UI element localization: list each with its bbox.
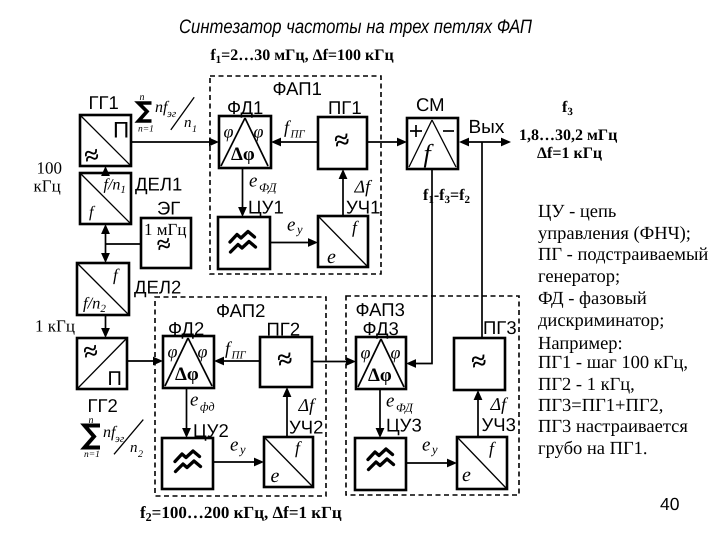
wire UC2 to PG2 xyxy=(283,387,292,437)
svg-text:ПГ3 настраивается: ПГ3 настраивается xyxy=(538,417,688,437)
block FD3 phase detector xyxy=(356,337,406,389)
label 1 kHz xyxy=(35,317,75,336)
svg-text:n: n xyxy=(89,415,94,426)
svg-text:φ: φ xyxy=(168,342,178,362)
formula sum n f_eg / n2 xyxy=(84,415,143,460)
svg-text:ФАП3: ФАП3 xyxy=(356,299,405,320)
block SM mixer xyxy=(407,118,458,169)
wire UC1 to PG1 xyxy=(339,169,348,216)
block FD2 phase detector xyxy=(163,336,214,388)
svg-text:ЦУ3: ЦУ3 xyxy=(386,415,422,436)
svg-text:e: e xyxy=(190,390,198,411)
svg-text:f2=100…200 кГц, Δf=1 кГц: f2=100…200 кГц, Δf=1 кГц xyxy=(140,503,342,524)
label e_y loop3 xyxy=(422,435,438,457)
svg-text:ЦУ - цепь: ЦУ - цепь xyxy=(538,202,616,222)
label FAP3 xyxy=(356,299,405,320)
label f3 output xyxy=(562,99,573,118)
svg-text:ФД1: ФД1 xyxy=(227,97,263,118)
block UC3 xyxy=(457,437,507,489)
svg-text:ПГ2: ПГ2 xyxy=(267,319,301,340)
dashed loop box FAP1 xyxy=(210,76,381,274)
label CU3 xyxy=(386,415,422,436)
label PG2 xyxy=(267,319,301,340)
svg-text:дискриминатор;: дискриминатор; xyxy=(538,311,664,331)
svg-text:П: П xyxy=(108,368,122,390)
label DEL2 xyxy=(134,277,181,298)
svg-text:e: e xyxy=(271,465,280,487)
wire FD2 to CU2 xyxy=(182,388,191,438)
label DEL1 xyxy=(135,174,182,195)
svg-text:ДЕЛ1: ДЕЛ1 xyxy=(135,174,182,195)
dashed loop box FAP2 xyxy=(155,297,326,496)
label output range xyxy=(519,127,617,144)
label EG xyxy=(157,198,180,219)
formula sum n f_eg / n1 xyxy=(138,92,197,135)
svg-text:φ: φ xyxy=(254,122,264,142)
svg-text:e: e xyxy=(327,246,336,268)
block GG1 xyxy=(80,115,131,171)
wire DEL1-DEL2 double arrow xyxy=(101,224,110,263)
svg-text:φ: φ xyxy=(391,343,401,363)
block CU3 xyxy=(355,438,406,490)
label e_fd loop1 xyxy=(249,171,277,195)
block CU1 control circuit (LPF) xyxy=(218,217,270,269)
block CU2 xyxy=(162,438,213,489)
label e_fd loop2 xyxy=(190,390,215,414)
svg-text:n=1: n=1 xyxy=(84,450,100,460)
subtitle f1=2...30 mHz xyxy=(210,47,393,66)
svg-text:Δφ: Δφ xyxy=(231,144,255,165)
label Vyh xyxy=(469,117,505,138)
label f_PG loop1 xyxy=(284,117,305,141)
svg-text:УЧ3: УЧ3 xyxy=(482,414,516,435)
label CU2 xyxy=(193,420,229,441)
wire CU3 to UC3 xyxy=(406,459,457,468)
svg-text:ПГ3=ПГ1+ПГ2,: ПГ3=ПГ1+ПГ2, xyxy=(538,396,663,416)
svg-text:ФД2: ФД2 xyxy=(168,318,204,339)
label output step xyxy=(537,145,602,162)
label e_fd loop3 xyxy=(386,391,414,415)
svg-text:φ: φ xyxy=(224,122,234,142)
label GG1 xyxy=(89,92,119,113)
svg-text:ФД3: ФД3 xyxy=(363,318,399,339)
wire DEL1 to GG1 xyxy=(101,166,110,176)
svg-text:Вых: Вых xyxy=(469,117,505,138)
wire SM to output with f3 feedback junction xyxy=(459,138,511,147)
svg-text:ПГ2 - 1 кГц,: ПГ2 - 1 кГц, xyxy=(538,375,635,395)
svg-text:генератор;: генератор; xyxy=(538,267,620,287)
wire EG to divider junction xyxy=(106,243,142,245)
svg-text:φ: φ xyxy=(361,343,371,363)
svg-text:Δf=1 кГц: Δf=1 кГц xyxy=(537,145,602,162)
label UC3 xyxy=(482,414,516,435)
block UC2 xyxy=(264,437,313,487)
svg-text:e: e xyxy=(422,435,430,456)
svg-text:1,8…30,2 мГц: 1,8…30,2 мГц xyxy=(519,127,617,144)
wire DEL2 to GG2 xyxy=(101,315,110,338)
label f_PG loop2 xyxy=(225,338,246,362)
svg-text:100: 100 xyxy=(37,159,63,178)
label e_y loop1 xyxy=(287,215,303,237)
svg-text:n: n xyxy=(184,115,192,131)
svg-text:ФД: ФД xyxy=(396,401,414,415)
svg-text:ПГ3: ПГ3 xyxy=(483,317,517,338)
svg-text:ФАП1: ФАП1 xyxy=(273,78,322,99)
label PG3 xyxy=(483,317,517,338)
svg-text:грубо на ПГ1.: грубо на ПГ1. xyxy=(538,439,648,459)
svg-text:e: e xyxy=(287,215,295,236)
svg-text:2: 2 xyxy=(138,449,143,460)
svg-text:ДЕЛ2: ДЕЛ2 xyxy=(134,277,181,298)
svg-text:эг: эг xyxy=(167,108,177,120)
label GG2 xyxy=(88,395,118,416)
svg-text:Синтезатор частоты на трех пет: Синтезатор частоты на трех петлях ФАП xyxy=(179,16,533,38)
svg-text:40: 40 xyxy=(660,494,680,514)
wire PG2 to FD3 xyxy=(312,357,356,366)
svg-text:n: n xyxy=(130,440,138,456)
label f1-f3=f2 xyxy=(423,187,470,206)
svg-text:ЦУ2: ЦУ2 xyxy=(193,420,229,441)
svg-text:Например:: Например: xyxy=(538,334,623,354)
svg-text:ПГ1 - шаг 100 кГц,: ПГ1 - шаг 100 кГц, xyxy=(538,353,688,373)
label 100 kHz xyxy=(34,159,63,196)
label delta-f loop1 xyxy=(354,177,374,197)
svg-text:n: n xyxy=(140,92,145,103)
svg-text:ГГ1: ГГ1 xyxy=(89,92,119,113)
svg-text:П: П xyxy=(113,118,129,143)
label SM xyxy=(416,94,445,115)
label FAP2 xyxy=(216,300,265,321)
block DEL2 xyxy=(77,263,129,315)
svg-text:ФД - фазовый: ФД - фазовый xyxy=(538,289,647,309)
label CU1 xyxy=(248,197,284,218)
block EG xyxy=(141,218,191,268)
label FD3 xyxy=(363,318,399,339)
svg-text:фд: фд xyxy=(200,400,215,414)
svg-text:e: e xyxy=(230,435,238,456)
svg-text:Δφ: Δφ xyxy=(368,365,392,386)
svg-text:e: e xyxy=(462,464,471,486)
title xyxy=(179,16,533,38)
svg-text:1: 1 xyxy=(192,124,197,135)
svg-text:f1=2…30 мГц, Δf=100 кГц: f1=2…30 мГц, Δf=100 кГц xyxy=(210,47,393,66)
block PG1 tunable oscillator xyxy=(318,117,367,169)
wire GG2 to FD2 xyxy=(127,357,163,366)
wire PG1 to SM xyxy=(367,138,407,147)
block FD1 phase detector xyxy=(219,116,271,168)
label UC1 xyxy=(346,197,380,218)
svg-text:ГГ2: ГГ2 xyxy=(88,395,118,416)
wire CU1 to UC1 xyxy=(270,238,318,247)
label FAP1 xyxy=(273,78,322,99)
svg-text:кГц: кГц xyxy=(34,177,61,196)
wire FD3 to CU3 xyxy=(376,389,385,438)
label FD1 xyxy=(227,97,263,118)
svg-text:n=1: n=1 xyxy=(138,125,154,135)
svg-text:управления (ФНЧ);: управления (ФНЧ); xyxy=(538,224,691,244)
wire FD1 to CU1 xyxy=(238,168,247,217)
svg-text:УЧ2: УЧ2 xyxy=(289,417,323,438)
svg-text:φ: φ xyxy=(198,342,208,362)
svg-text:ПГ: ПГ xyxy=(231,350,247,362)
svg-text:СМ: СМ xyxy=(416,94,445,115)
svg-text:e: e xyxy=(249,171,257,192)
dashed loop box FAP3 xyxy=(346,296,519,495)
svg-text:e: e xyxy=(386,391,394,412)
label UC2 xyxy=(289,417,323,438)
wire UC3 to PG3 xyxy=(474,390,483,437)
wire PG3 feedback up to output line xyxy=(481,142,483,338)
page number xyxy=(660,494,680,514)
wire GG1 to FD1 xyxy=(131,138,219,147)
wire PG1 to FD1 xyxy=(271,138,318,147)
label delta-f loop3 xyxy=(490,394,510,414)
label FD2 xyxy=(168,318,204,339)
svg-text:ПГ - подстраиваемый: ПГ - подстраиваемый xyxy=(538,245,708,265)
svg-text:ФД: ФД xyxy=(259,181,277,195)
block PG3 xyxy=(454,338,505,390)
svg-text:1 кГц: 1 кГц xyxy=(35,317,75,336)
svg-text:у: у xyxy=(430,443,438,457)
block DEL1 xyxy=(80,173,131,224)
wire PG2 to FD2 xyxy=(214,357,260,366)
svg-text:у: у xyxy=(238,443,246,457)
label PG1 xyxy=(328,97,362,118)
wire CU2 to UC2 xyxy=(213,458,264,467)
svg-text:ПГ1: ПГ1 xyxy=(328,97,362,118)
bottom caption f2 range xyxy=(140,503,342,524)
wire SM f2 down to FD3 xyxy=(406,169,432,368)
svg-text:УЧ1: УЧ1 xyxy=(346,197,380,218)
svg-text:ЭГ: ЭГ xyxy=(157,198,180,219)
svg-text:ЦУ1: ЦУ1 xyxy=(248,197,284,218)
block UC1 xyxy=(318,216,368,268)
block GG2 xyxy=(77,336,127,390)
svg-text:ФАП2: ФАП2 xyxy=(216,300,265,321)
label e_y loop2 xyxy=(230,435,246,457)
legend text block xyxy=(538,202,708,459)
svg-text:ПГ: ПГ xyxy=(290,129,306,141)
label delta-f loop2 xyxy=(298,395,318,415)
svg-text:у: у xyxy=(295,223,303,237)
block PG2 xyxy=(260,337,312,387)
svg-text:Δφ: Δφ xyxy=(175,364,199,385)
